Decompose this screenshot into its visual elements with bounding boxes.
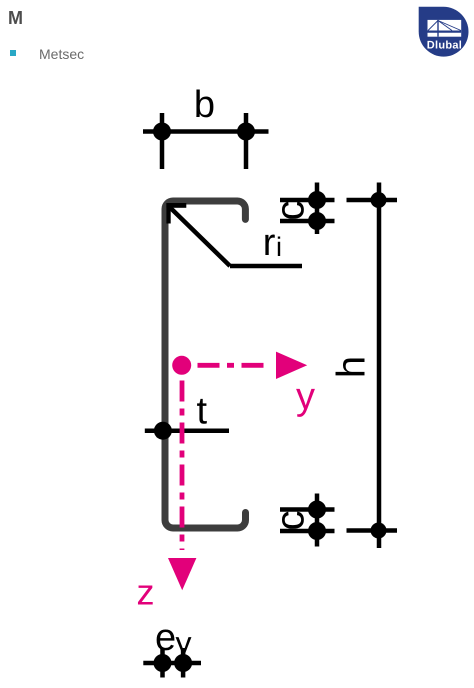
- svg-text:z: z: [137, 572, 155, 613]
- svg-text:Dlubal: Dlubal: [427, 40, 462, 52]
- svg-text:b: b: [194, 84, 215, 126]
- svg-text:y: y: [176, 625, 192, 661]
- svg-text:e: e: [155, 617, 176, 659]
- svg-text:c: c: [269, 201, 313, 221]
- svg-text:h: h: [330, 356, 374, 378]
- svg-text:r: r: [263, 222, 276, 264]
- svg-text:c: c: [269, 511, 313, 531]
- svg-text:i: i: [276, 232, 282, 262]
- svg-text:t: t: [197, 391, 208, 433]
- svg-text:y: y: [296, 376, 315, 418]
